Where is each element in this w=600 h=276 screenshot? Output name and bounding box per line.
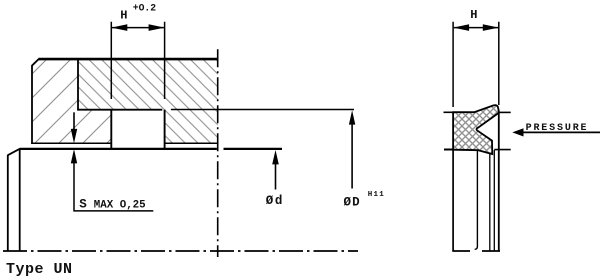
seal side silhouette lip line 2 bbox=[493, 150, 495, 251]
joint line cover/housing vertical bbox=[77, 59, 79, 110]
H dimension extension lines (right figure) bbox=[453, 22, 499, 107]
housing bore line left of groove bbox=[31, 142, 111, 144]
svg-text:H: H bbox=[470, 8, 477, 22]
joint + groove root line bbox=[77, 109, 162, 111]
S dimension down arrow bbox=[73, 112, 75, 131]
svg-text:MAX O,25: MAX O,25 bbox=[94, 200, 146, 212]
cover plate chamfer top-left bbox=[32, 59, 39, 66]
PRESSURE arrow line bbox=[523, 131, 600, 133]
hatch fill: gland cover plate (left piece, / hatch) bbox=[32, 59, 111, 143]
centerline dash-dot bbox=[3, 250, 358, 252]
PRESSURE arrowhead bbox=[512, 128, 523, 136]
svg-text:ØD: ØD bbox=[344, 196, 361, 210]
seal side silhouette line outer-left bbox=[452, 150, 454, 251]
svg-text:S: S bbox=[79, 198, 87, 212]
svg-text:+O.2: +O.2 bbox=[133, 3, 156, 14]
rod surface line bbox=[20, 148, 282, 150]
svg-text:H11: H11 bbox=[368, 191, 385, 199]
rod chamfer edge line bbox=[19, 149, 21, 251]
rod end left edge bbox=[7, 155, 9, 251]
bottom tick left pair bbox=[452, 250, 470, 252]
groove left wall bbox=[110, 110, 112, 150]
svg-text:Type UN: Type UN bbox=[6, 261, 73, 276]
groove root reference line right of seal bbox=[499, 111, 510, 113]
housing top edge bbox=[39, 58, 218, 61]
seal crosshatch body bbox=[453, 105, 499, 154]
seal side silhouette line under notch vertex (with J hook) bbox=[475, 150, 478, 249]
dimension H +0.2 arrowheads bbox=[111, 24, 127, 31]
seal outline bbox=[453, 105, 499, 154]
groove root reference line left of seal bbox=[444, 111, 454, 113]
groove right wall bbox=[164, 110, 166, 150]
dimension H +0.2 extension lines bbox=[111, 22, 164, 99]
seal side silhouette lip line 1 bbox=[489, 154, 491, 252]
cover plate left edge bbox=[31, 65, 33, 144]
dimension H +0.2 line bbox=[112, 27, 164, 29]
rod reference line left of seal bbox=[444, 149, 454, 151]
rod end chamfer bbox=[8, 149, 20, 156]
vertical dash-dot break line bbox=[217, 49, 219, 257]
H dimension line (right figure) bbox=[454, 27, 498, 29]
bottom tick right pair bbox=[482, 250, 500, 252]
OD dimension arrow bbox=[349, 110, 355, 124]
housing bore line right of groove bbox=[165, 142, 218, 144]
svg-text:PRESSURE: PRESSURE bbox=[526, 123, 589, 134]
rod reference line right of seal bbox=[494, 149, 510, 151]
hatch fill: housing block (right piece, \ hatch) bbox=[78, 59, 218, 143]
OD extension line over housing bbox=[171, 109, 354, 111]
S dimension up arrow and leader bbox=[71, 149, 77, 163]
seal side silhouette line outer-right bbox=[498, 112, 500, 251]
Od dimension arrow bbox=[272, 150, 279, 164]
svg-text:H: H bbox=[120, 9, 127, 23]
H dimension arrowheads (right figure) bbox=[453, 24, 469, 31]
svg-text:Ød: Ød bbox=[266, 194, 284, 208]
